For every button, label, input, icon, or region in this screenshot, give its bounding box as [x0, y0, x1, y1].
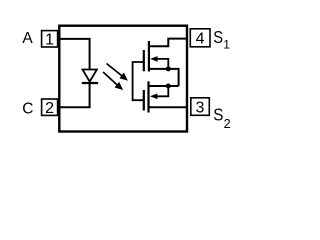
- light arrow 1: [107, 64, 128, 81]
- junction dot Q2 source/body: [166, 84, 171, 89]
- Q2 drain wire to pin 3: [149, 106, 187, 108]
- svg-text:C: C: [22, 100, 33, 117]
- Q1 drain wire to pin 4: [149, 39, 187, 47]
- svg-text:4: 4: [196, 31, 205, 48]
- svg-text:2: 2: [224, 117, 231, 131]
- svg-text:2: 2: [45, 100, 54, 117]
- svg-text:S: S: [213, 27, 223, 47]
- svg-text:S: S: [213, 104, 223, 124]
- gate bracket wire: [133, 62, 144, 100]
- svg-text:3: 3: [196, 99, 205, 116]
- pin 2 box: [42, 99, 58, 115]
- junction dot Q1 source/body: [166, 66, 171, 71]
- Q2 source wire: [149, 85, 179, 87]
- LED D1 triangle: [83, 70, 97, 82]
- svg-text:1: 1: [223, 38, 230, 52]
- package outline: [59, 26, 187, 132]
- Q2 body arrow: [150, 86, 168, 99]
- LED cathode bar: [82, 82, 98, 84]
- wire LED cathode to pin2: [58, 83, 90, 107]
- Q1 channel bar: [148, 41, 150, 72]
- pin 3 box: [191, 98, 210, 116]
- Q1 source wire: [149, 69, 179, 86]
- Q2 channel bar: [147, 81, 149, 112]
- pin 4 box: [190, 29, 210, 47]
- light arrow 2: [103, 72, 123, 90]
- wire pin1 to LED anode: [58, 39, 90, 70]
- transistor Q1 (upper MOSFET) gate bar: [143, 50, 145, 71]
- transistor Q2 (lower MOSFET) gate bar: [143, 90, 145, 111]
- svg-text:A: A: [22, 30, 33, 47]
- svg-text:1: 1: [45, 32, 54, 49]
- pin 1 box: [42, 31, 58, 47]
- Q1 body arrow: [150, 56, 168, 69]
